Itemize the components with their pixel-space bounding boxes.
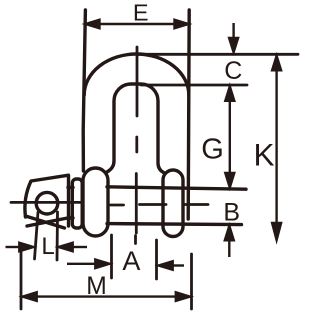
svg-text:M: M xyxy=(86,272,107,300)
node dim-L-left xyxy=(6,246,21,248)
wire pin-centerline-right-stub xyxy=(184,203,208,206)
node dim-G-line xyxy=(229,99,231,174)
node dim-L-right xyxy=(72,246,87,248)
node right-ear xyxy=(163,170,183,237)
node bow-outer-arc xyxy=(84,54,189,95)
svg-text:L: L xyxy=(41,233,54,260)
wire ext-L-right xyxy=(56,212,59,260)
wire ext-M-left xyxy=(20,250,23,309)
wire ext-C xyxy=(138,53,298,56)
wire ext-L-left xyxy=(35,212,39,259)
wire right-leg-E-ext xyxy=(188,10,189,219)
node pin-eye xyxy=(36,192,58,214)
svg-text:B: B xyxy=(223,199,240,227)
svg-text:C: C xyxy=(224,57,242,85)
node pin-head-outline xyxy=(25,175,69,226)
node dim-E xyxy=(97,23,177,25)
svg-text:A: A xyxy=(122,246,140,276)
node dim-K-line xyxy=(275,68,277,225)
node left-ear xyxy=(83,168,108,236)
wire pin-top-edge xyxy=(107,187,246,189)
node pin-head-bottom-near xyxy=(26,216,65,228)
wire pin-neck-top xyxy=(68,186,73,189)
node dim-A-right xyxy=(171,264,184,266)
wire centerline-v2 xyxy=(135,137,138,152)
node pin-head-bottom-far xyxy=(27,218,70,227)
wire centerline-v4 xyxy=(134,236,137,244)
svg-text:K: K xyxy=(253,136,274,172)
wire left-leg-E-ext xyxy=(83,10,85,171)
node dim-M xyxy=(34,295,178,297)
svg-text:E: E xyxy=(133,0,149,25)
wire centerline-v1 xyxy=(136,47,139,116)
wire ext-A-left xyxy=(110,235,113,278)
wire ext-M-right xyxy=(190,254,193,309)
node pin-collar xyxy=(72,179,82,228)
wire centerline-v3 xyxy=(135,174,138,234)
node dim-A-left xyxy=(67,263,96,265)
wire ext-G xyxy=(141,84,247,87)
wire pin-axis-left xyxy=(11,201,82,204)
wire pin-axis-dash1 xyxy=(111,204,124,207)
wire ext-A-right xyxy=(155,240,158,279)
wire pin-axis-dash2 xyxy=(140,203,167,206)
wire pin-bottom-edge xyxy=(107,224,242,225)
wire pin-neck-bottom xyxy=(68,216,73,219)
node bow-inner-arch xyxy=(107,84,165,173)
svg-text:G: G xyxy=(201,133,224,165)
node dim-B-bottom-arrow xyxy=(228,240,230,257)
node dim-C-arrow xyxy=(232,23,234,39)
